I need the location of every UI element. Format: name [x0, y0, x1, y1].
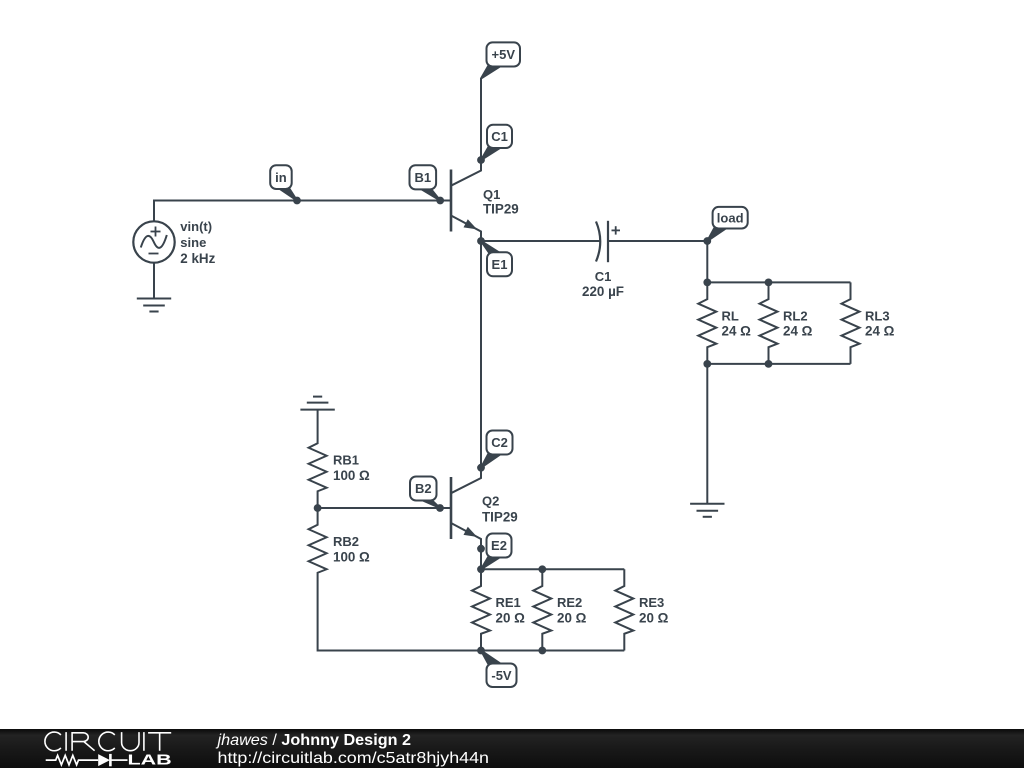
- svg-text:20 Ω: 20 Ω: [639, 611, 669, 626]
- svg-text:vin(t): vin(t): [180, 219, 212, 234]
- svg-text:24 Ω: 24 Ω: [865, 324, 895, 339]
- svg-text:LAB: LAB: [128, 753, 172, 768]
- svg-text:RL: RL: [722, 309, 739, 324]
- svg-text:B1: B1: [414, 170, 431, 185]
- svg-text:RE3: RE3: [639, 595, 664, 610]
- svg-text:C2: C2: [491, 435, 508, 450]
- svg-text:load: load: [717, 210, 744, 225]
- svg-text:RB1: RB1: [333, 453, 359, 468]
- svg-text:220 µF: 220 µF: [582, 284, 624, 299]
- svg-text:24 Ω: 24 Ω: [722, 324, 752, 339]
- svg-text:E2: E2: [491, 538, 507, 553]
- svg-text:RE2: RE2: [557, 595, 582, 610]
- svg-text:TIP29: TIP29: [482, 510, 518, 525]
- svg-text:E1: E1: [492, 257, 508, 272]
- svg-text:RE1: RE1: [496, 595, 521, 610]
- svg-text:100 Ω: 100 Ω: [333, 550, 370, 565]
- svg-text:RB2: RB2: [333, 534, 359, 549]
- svg-text:-5V: -5V: [491, 668, 512, 683]
- svg-text:Q1: Q1: [483, 187, 500, 202]
- svg-text:RL3: RL3: [865, 309, 890, 324]
- svg-text:C1: C1: [491, 129, 508, 144]
- svg-text:B2: B2: [415, 481, 432, 496]
- svg-text:RL2: RL2: [783, 309, 808, 324]
- svg-text:Q2: Q2: [482, 494, 499, 509]
- svg-text:http://circuitlab.com/c5atr8hj: http://circuitlab.com/c5atr8hjyh44n: [218, 750, 490, 767]
- svg-text:C1: C1: [595, 269, 612, 284]
- svg-text:20 Ω: 20 Ω: [496, 611, 526, 626]
- svg-text:20 Ω: 20 Ω: [557, 611, 587, 626]
- svg-text:100 Ω: 100 Ω: [333, 468, 370, 483]
- svg-text:jhawes / Johnny Design 2: jhawes / Johnny Design 2: [215, 732, 411, 749]
- svg-text:in: in: [275, 170, 287, 185]
- svg-text:sine: sine: [180, 235, 206, 250]
- svg-text:+5V: +5V: [492, 47, 516, 62]
- svg-text:TIP29: TIP29: [483, 201, 519, 216]
- svg-text:24 Ω: 24 Ω: [783, 324, 813, 339]
- svg-text:2 kHz: 2 kHz: [180, 251, 215, 266]
